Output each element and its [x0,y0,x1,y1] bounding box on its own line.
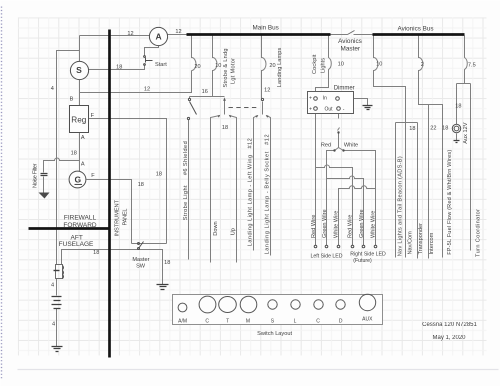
svg-text:2: 2 [421,62,424,68]
svg-text:Master: Master [132,257,149,263]
svg-text:White: White [344,143,358,149]
svg-text:4: 4 [52,322,55,328]
svg-text:12: 12 [127,31,133,37]
svg-text:4: 4 [51,86,54,92]
svg-text:Turn Coordinator: Turn Coordinator [475,209,481,257]
svg-text:18: 18 [442,126,448,132]
svg-text:Master: Master [341,46,361,53]
svg-text:16: 16 [202,89,208,95]
svg-text:20: 20 [194,64,200,70]
svg-text:C: C [316,318,320,324]
svg-text:18: 18 [116,64,122,70]
svg-text:Avionics Bus: Avionics Bus [398,25,434,32]
svg-text:+: + [309,96,312,102]
svg-text:B: B [70,96,74,102]
svg-text:Strobe & Lndg: Strobe & Lndg [223,49,229,88]
svg-text:10: 10 [376,62,382,68]
svg-text:12: 12 [144,86,150,92]
svg-text:18: 18 [164,260,170,266]
svg-text:Main Bus: Main Bus [252,25,278,32]
svg-text:A: A [156,32,162,42]
svg-text:+: + [309,106,312,112]
svg-text:7.5: 7.5 [468,62,476,68]
svg-text:Intercom: Intercom [429,232,435,254]
svg-text:F: F [91,113,95,119]
svg-text:FIREWALL: FIREWALL [64,215,97,222]
svg-text:M: M [246,318,250,324]
svg-text:A: A [81,135,85,141]
svg-text:12: 12 [264,88,270,94]
svg-text:Lgt Motor: Lgt Motor [231,58,237,84]
svg-text:18: 18 [156,172,162,178]
svg-text:Left Side LED: Left Side LED [310,254,342,260]
svg-text:Strobe Light #6 Shielded: Strobe Light #6 Shielded [183,141,189,220]
svg-text:Cockpit: Cockpit [312,54,318,74]
svg-text:Nav/Com: Nav/Com [408,231,414,255]
svg-text:Nav Lights and Tail Beacon (AD: Nav Lights and Tail Beacon (ADS-B) [398,156,404,256]
svg-text:A: A [81,162,85,168]
svg-text:White Wire: White Wire [334,211,340,238]
svg-text:L: L [294,318,297,324]
svg-text:Green Wire: Green Wire [322,209,328,238]
svg-text:18: 18 [138,182,144,188]
svg-text:Down: Down [213,221,219,235]
svg-text:Landing Light Lamp - Belly Soc: Landing Light Lamp - Belly Socket #12 [264,134,270,254]
svg-text:Red: Red [321,143,331,149]
svg-text:Right Side LED: Right Side LED [350,252,386,258]
svg-text:A/M: A/M [178,318,187,324]
svg-text:PANEL: PANEL [123,209,129,226]
svg-text:22: 22 [430,126,436,132]
svg-text:Red Wire: Red Wire [311,215,317,238]
svg-text:18: 18 [71,150,77,156]
svg-text:Landing Light Lamp - Left Wing: Landing Light Lamp - Left Wing #12 [248,138,254,246]
svg-text:Red Wire: Red Wire [347,215,353,238]
svg-text:F: F [91,173,95,179]
svg-text:Lights: Lights [320,58,326,73]
svg-text:FP-5L Fuel Flow (Red & Wht/Brn: FP-5L Fuel Flow (Red & Wht/Brn Wires) [447,150,453,255]
svg-text:G: G [74,175,81,185]
svg-text:18: 18 [222,125,228,131]
svg-text:Avionics: Avionics [338,38,362,45]
svg-text:Start: Start [155,62,167,68]
svg-text:FORWARD: FORWARD [63,222,97,229]
svg-text:Noise Filter: Noise Filter [33,163,39,188]
svg-text:Dimmer: Dimmer [334,86,355,92]
svg-text:Reg: Reg [71,115,86,124]
svg-text:18: 18 [455,104,461,110]
svg-text:10: 10 [338,61,344,67]
svg-text:Up: Up [230,228,236,235]
svg-text:Switch Layout: Switch Layout [257,331,292,337]
svg-text:12: 12 [175,29,181,35]
svg-text:In: In [323,96,327,102]
svg-text:C: C [205,318,209,324]
svg-text:18: 18 [93,250,99,256]
svg-text:T: T [226,318,229,324]
svg-text:SW: SW [136,263,146,269]
svg-text:Green Wire: Green Wire [359,209,365,238]
svg-text:Landing Lamps: Landing Lamps [277,47,283,87]
svg-text:Aux 12V: Aux 12V [463,122,469,143]
svg-text:20: 20 [269,63,275,69]
svg-text:(Future): (Future) [353,258,372,264]
svg-text:May 1, 2020: May 1, 2020 [432,335,466,341]
svg-text:10: 10 [215,63,221,69]
svg-text:4: 4 [51,283,54,289]
svg-text:D: D [339,318,343,324]
svg-text:18: 18 [409,126,415,132]
svg-text:Cessna 120 N72851: Cessna 120 N72851 [422,322,477,328]
svg-text:FUSELAGE: FUSELAGE [59,241,94,248]
svg-text:Transponder: Transponder [418,223,424,255]
svg-text:INSTRUMENT: INSTRUMENT [114,199,120,236]
svg-text:White Wire: White Wire [371,211,377,238]
svg-text:S: S [76,65,82,75]
svg-text:Out: Out [325,107,334,113]
svg-text:AUX: AUX [362,316,373,322]
